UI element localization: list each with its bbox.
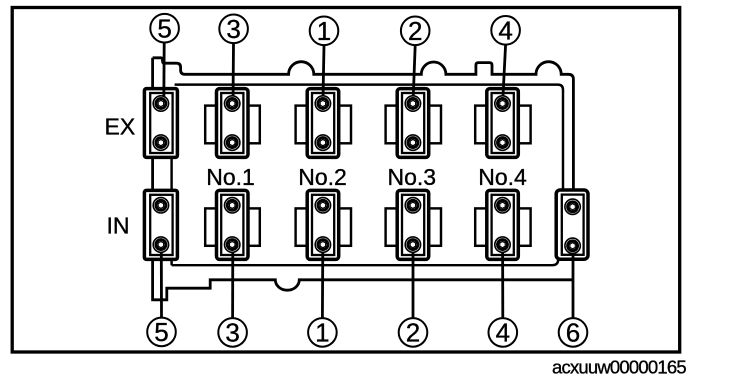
leader line top 2 [413, 45, 415, 103]
bolts cap 6 [565, 199, 580, 253]
cap EX No.1 [205, 89, 260, 158]
svg-text:acxuuw00000165: acxuuw00000165 [552, 356, 686, 377]
svg-text:EX: EX [105, 114, 136, 140]
bolts cap EX No.2 [315, 96, 330, 151]
bolts cap IN No.3 [405, 198, 420, 253]
cap EX No.3 [386, 89, 441, 158]
callout circle bottom 6 [559, 318, 588, 348]
svg-text:5: 5 [154, 317, 168, 347]
cap EX No.4 [475, 89, 530, 158]
leader line top 1 [323, 45, 324, 103]
bolts cap EX5 [153, 96, 168, 151]
svg-text:2: 2 [406, 318, 420, 348]
cap EX No.2 [296, 89, 351, 158]
leader line top 3 [232, 43, 235, 104]
cap IN5 [144, 190, 177, 259]
cap IN No.3 [386, 190, 441, 259]
svg-text:No.4: No.4 [478, 164, 527, 190]
svg-text:3: 3 [226, 14, 240, 44]
svg-text:No.2: No.2 [298, 164, 347, 190]
bolts cap IN No.4 [495, 198, 510, 253]
bolts cap EX No.3 [405, 96, 420, 151]
bolts cap EX No.1 [225, 96, 240, 151]
svg-text:No.1: No.1 [206, 164, 255, 190]
svg-text:IN: IN [107, 213, 130, 239]
svg-text:1: 1 [315, 318, 329, 348]
callout circle top 4 [491, 16, 520, 46]
callout circle bottom 3 [218, 318, 247, 348]
svg-text:No.3: No.3 [388, 164, 437, 190]
cylinder head outline: left edge and bottom edge with dip [153, 58, 574, 300]
bolts cap IN No.1 [225, 198, 240, 253]
cylinder head outline: top edge with bumps and right side [153, 58, 574, 191]
callout circle bottom 4 [489, 318, 518, 348]
leader line bottom 6 [572, 246, 575, 318]
callout circle bottom 5 [147, 317, 176, 347]
cap IN No.4 [475, 190, 530, 259]
leader line bottom 2 [412, 245, 415, 318]
svg-text:6: 6 [566, 318, 580, 348]
leader line bottom 5 [160, 245, 163, 318]
callout circle top 2 [401, 16, 430, 46]
leader line top 5 [162, 42, 165, 103]
svg-text:1: 1 [317, 16, 331, 46]
svg-text:2: 2 [408, 16, 422, 46]
inner top line of head [175, 85, 563, 191]
head edge segment between No.5 caps [170, 156, 172, 192]
cap 6 (thrust cap, right end) [556, 190, 588, 259]
inner bottom line of head [172, 258, 559, 265]
callout circle top 5 [150, 14, 179, 44]
leader line bottom 1 [321, 245, 324, 318]
bolts cap IN No.2 [315, 198, 330, 253]
callout circle bottom 2 [399, 318, 428, 348]
svg-text:5: 5 [157, 14, 171, 44]
cap IN No.2 [296, 190, 351, 259]
callout circle bottom 1 [308, 318, 337, 348]
cap IN No.1 [205, 190, 260, 259]
svg-text:4: 4 [496, 318, 510, 348]
bolts cap IN5 [153, 198, 168, 253]
callout circle top 3 [219, 14, 248, 44]
leader line bottom 4 [501, 245, 504, 318]
svg-text:3: 3 [225, 318, 239, 348]
bolts cap EX No.4 [495, 96, 510, 151]
leader line top 4 [503, 45, 506, 104]
svg-text:4: 4 [498, 16, 512, 46]
callout circle top 1 [310, 16, 339, 46]
cap EX5 [144, 89, 177, 158]
leader line bottom 3 [231, 245, 234, 318]
